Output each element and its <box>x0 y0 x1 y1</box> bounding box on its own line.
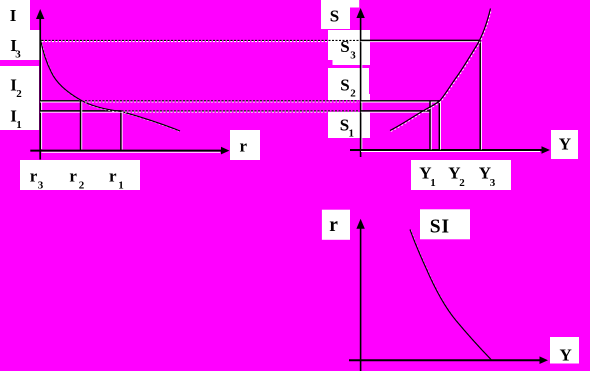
svg-text:r: r <box>69 167 77 186</box>
white notch right of S box <box>350 0 359 8</box>
label box SI <box>420 209 470 239</box>
right graph: Y axis white companion <box>361 151 540 153</box>
right graph: S axis arrowhead <box>356 8 364 18</box>
right graph: Y axis arrowhead <box>542 146 551 154</box>
svg-text:2: 2 <box>350 88 356 100</box>
right graph: S2 level line <box>361 100 440 102</box>
left graph: I axis white companion <box>41 42 43 149</box>
svg-text:S: S <box>340 75 349 94</box>
right graph: S3 level line <box>361 39 481 41</box>
svg-text:S: S <box>330 7 339 26</box>
right graph: S2 level line white companion <box>361 101 439 103</box>
label box S1 <box>328 112 370 138</box>
svg-text:Y: Y <box>560 346 572 365</box>
label box r (bottom axis) <box>322 210 350 240</box>
svg-text:I: I <box>10 6 17 25</box>
left graph: I axis arrowhead <box>36 9 44 19</box>
left graph: r axis (horizontal) <box>30 150 222 152</box>
svg-text:2: 2 <box>79 180 85 192</box>
label box Y (bottom axis) <box>550 337 579 364</box>
svg-text:r: r <box>240 137 248 156</box>
svg-text:1: 1 <box>118 180 124 192</box>
svg-text:1: 1 <box>430 177 436 189</box>
label box r (left axis) <box>230 130 260 160</box>
label box I2/I1 <box>0 66 39 130</box>
left graph: investment demand curve (white dash) <box>41 40 181 131</box>
right graph: Y3 vertical white companion <box>480 42 482 150</box>
right graph: saving curve (white dash) <box>391 9 492 131</box>
bottom graph: r axis arrowhead <box>356 219 364 229</box>
dotted line I1-S1 (white) <box>122 111 359 113</box>
right graph: Y2 vertical <box>438 100 440 150</box>
svg-text:S: S <box>340 37 349 56</box>
bottom graph: r axis (vertical) <box>360 227 362 371</box>
label box S <box>321 0 350 29</box>
dotted line I1-S1 (black) <box>122 110 359 112</box>
dotted line I2-S2 (black) <box>85 100 359 102</box>
left graph: I2 level line <box>40 100 81 102</box>
left graph: r axis white companion <box>42 151 221 153</box>
label box S2 <box>328 68 369 100</box>
svg-text:3: 3 <box>350 50 356 62</box>
left graph: r axis arrowhead <box>221 147 229 155</box>
svg-text:r: r <box>30 167 38 186</box>
label box Y (top right axis) <box>551 130 578 159</box>
right graph: S axis white companion <box>361 42 363 149</box>
left graph: r1 vertical white companion <box>121 112 123 150</box>
label box r3 r2 r1 <box>20 160 140 190</box>
svg-text:1: 1 <box>16 119 22 131</box>
svg-text:r: r <box>109 167 117 186</box>
left graph: investment demand curve (black dash) <box>41 40 181 132</box>
bottom graph: Y axis arrowhead <box>540 356 549 364</box>
svg-text:3: 3 <box>15 49 21 61</box>
svg-text:2: 2 <box>16 88 22 100</box>
left graph: I2 level line white companion <box>40 101 80 103</box>
left graph: r1 vertical <box>120 111 122 150</box>
bottom graph: SI curve (white dash) <box>411 230 493 361</box>
left graph: r2 vertical white companion <box>81 102 83 150</box>
right graph: S1 level line <box>361 110 430 112</box>
right graph: S1 level line white companion <box>361 111 430 113</box>
left graph: I axis (vertical) <box>39 17 41 160</box>
right graph: Y2 vertical white companion <box>440 101 442 150</box>
label box I <box>0 0 30 30</box>
right graph: Y axis (horizontal) <box>350 149 543 151</box>
left graph: r2 vertical <box>80 101 82 150</box>
svg-text:3: 3 <box>490 177 496 189</box>
dotted line I3-S3 (black) <box>42 39 359 41</box>
right graph: saving curve (black dash) <box>390 9 491 131</box>
right graph: S3 level line white companion <box>361 41 481 43</box>
right graph: Y1 vertical white companion <box>430 102 432 150</box>
left graph: I1 level line <box>40 110 121 112</box>
dotted line I3-S3 (white) <box>42 41 359 43</box>
label box I3 <box>0 30 40 60</box>
label box Y1 Y2 Y3 <box>411 160 511 190</box>
svg-text:3: 3 <box>38 180 44 192</box>
svg-text:SI: SI <box>430 217 450 238</box>
label box S3 <box>328 30 370 60</box>
svg-text:r: r <box>329 215 338 236</box>
right graph: Y3 vertical <box>479 40 481 150</box>
left graph: I1 level line white companion <box>40 111 120 113</box>
right graph: S axis (vertical) <box>360 16 362 157</box>
small white patch right of S axis <box>361 94 370 101</box>
right graph: Y1 vertical <box>429 101 431 150</box>
bottom graph: SI curve (black dash) <box>410 230 492 361</box>
svg-text:2: 2 <box>459 177 465 189</box>
svg-text:1: 1 <box>349 128 355 140</box>
bottom graph: Y axis (horizontal) <box>349 359 541 361</box>
svg-text:Y: Y <box>559 135 571 154</box>
dotted line I2-S2 (white) <box>85 101 359 103</box>
